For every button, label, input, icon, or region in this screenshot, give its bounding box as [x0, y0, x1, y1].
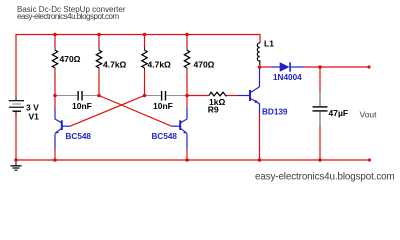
svg-text:10nF: 10nF [153, 101, 173, 111]
wire: R3 to node [144, 71, 146, 96]
svg-text:47µF: 47µF [329, 108, 349, 118]
wire: diode to output [304, 66, 369, 68]
capacitor C3 47uF [313, 92, 328, 126]
wire: drop to R2 [98, 35, 100, 48]
svg-text:BC548: BC548 [66, 132, 92, 141]
svg-text:4.7kΩ: 4.7kΩ [103, 60, 127, 70]
svg-text:L1: L1 [264, 39, 274, 49]
ground [11, 160, 22, 171]
resistor 4.7k #2 [144, 47, 146, 50]
battery V1 [9, 97, 24, 115]
wire: diode node to diode [260, 66, 272, 68]
wire: Q1 collector [54, 96, 56, 109]
wire: cross coupling node B to Q2 base [99, 96, 172, 127]
svg-text:470Ω: 470Ω [194, 60, 215, 70]
wire: drop to R4 [186, 35, 188, 48]
wire: Q3 collector up to diode node [259, 67, 261, 87]
wire: top rail [16, 35, 260, 98]
svg-text:easy-electronics4u.blogspot.co: easy-electronics4u.blogspot.com [255, 172, 395, 183]
resistor 470ohm #1 [54, 47, 56, 50]
inductor L1 [257, 43, 260, 65]
svg-text:BC548: BC548 [152, 132, 178, 141]
wire: Q2 collector [186, 96, 188, 109]
svg-text:470Ω: 470Ω [60, 54, 81, 64]
svg-text:1N4004: 1N4004 [273, 73, 302, 82]
transistor Q1 BC548 [55, 119, 70, 134]
wire: R4 to node [186, 71, 188, 96]
svg-text:R9: R9 [208, 105, 219, 115]
capacitor C1 10nF [57, 91, 99, 101]
svg-text:10nF: 10nF [72, 101, 92, 111]
wire: R2 to node [98, 71, 100, 96]
wire: Q3 emitter down to rail [259, 104, 261, 114]
diode D1 1N4004 [271, 62, 304, 71]
wire: R9 to Q3 base [227, 95, 238, 97]
wire: Q1 emitter to rail [54, 133, 56, 149]
wire: cap to bottom rail [319, 126, 321, 160]
wire: cross coupling node C to Q1 base [70, 96, 145, 127]
wire: R1 to node [54, 71, 56, 96]
resistor 4.7k #1 [98, 47, 100, 50]
resistor 470ohm #2 [186, 47, 188, 50]
transistor Q2 BC548 [172, 119, 188, 134]
wire: bottom rail [16, 115, 370, 161]
wire: node D to R9 [187, 95, 209, 97]
svg-text:V1: V1 [29, 112, 40, 122]
wire: drop to R1 [54, 35, 56, 48]
svg-text:easy-electronics4u.blogspot.co: easy-electronics4u.blogspot.com [17, 12, 119, 21]
transistor Q3 BD139 [250, 87, 260, 104]
svg-text:Vout: Vout [360, 110, 378, 120]
resistor R9 1k [209, 92, 227, 96]
svg-text:4.7kΩ: 4.7kΩ [148, 60, 172, 70]
wire: output cap branch [319, 67, 321, 92]
wire: drop to R3 [144, 35, 146, 48]
capacitor C2 10nF [146, 91, 186, 101]
wire: Q2 emitter to rail [186, 133, 188, 149]
svg-text:BD139: BD139 [262, 108, 288, 117]
